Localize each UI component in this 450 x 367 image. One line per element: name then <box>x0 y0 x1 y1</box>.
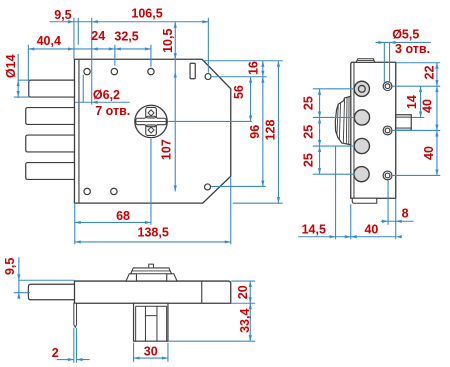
svg-text:40: 40 <box>421 99 435 113</box>
svg-text:9,5: 9,5 <box>54 8 71 22</box>
svg-text:20: 20 <box>236 285 250 299</box>
svg-text:25: 25 <box>302 96 316 110</box>
svg-text:30: 30 <box>144 344 158 358</box>
svg-text:16: 16 <box>246 61 260 75</box>
svg-text:33,4: 33,4 <box>238 309 252 333</box>
svg-text:8: 8 <box>402 206 409 220</box>
svg-text:9,5: 9,5 <box>3 258 17 275</box>
svg-text:32,5: 32,5 <box>114 29 138 43</box>
svg-text:22: 22 <box>423 66 437 80</box>
svg-text:2: 2 <box>52 346 59 360</box>
svg-text:Ø14: Ø14 <box>4 54 18 78</box>
svg-text:7 отв.: 7 отв. <box>95 104 130 118</box>
svg-text:106,5: 106,5 <box>131 7 162 21</box>
svg-text:96: 96 <box>248 125 262 139</box>
svg-text:68: 68 <box>116 209 130 223</box>
svg-text:56: 56 <box>232 85 246 99</box>
svg-text:Ø5,5: Ø5,5 <box>392 27 419 41</box>
svg-text:14,5: 14,5 <box>302 222 326 236</box>
svg-text:24: 24 <box>91 29 105 43</box>
svg-text:14: 14 <box>405 95 419 109</box>
svg-text:138,5: 138,5 <box>138 226 169 240</box>
svg-text:40: 40 <box>422 146 436 160</box>
svg-text:3 отв.: 3 отв. <box>395 42 430 56</box>
svg-text:107: 107 <box>160 139 174 160</box>
svg-text:10,5: 10,5 <box>161 29 175 53</box>
svg-text:Ø6,2: Ø6,2 <box>93 88 120 102</box>
svg-text:40: 40 <box>364 222 378 236</box>
svg-text:25: 25 <box>302 153 316 167</box>
svg-text:25: 25 <box>302 125 316 139</box>
svg-text:40,4: 40,4 <box>37 34 61 48</box>
svg-text:128: 128 <box>263 119 277 140</box>
